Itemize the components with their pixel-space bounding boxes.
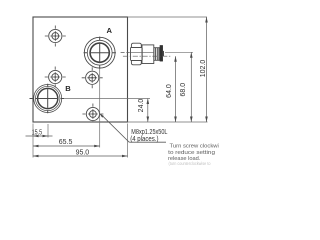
svg-text:to reduce setting: to reduce setting bbox=[168, 150, 215, 156]
right extension line bbox=[127, 124, 129, 158]
svg-text:Turn screw clockwi: Turn screw clockwi bbox=[170, 144, 219, 150]
extension line from B center y to 24.0 dim bbox=[64, 98, 150, 100]
bolt hole B1 bbox=[45, 26, 66, 47]
port B bbox=[30, 84, 65, 114]
dim 15.5 extension line at x=48 bbox=[47, 124, 49, 138]
dim 64.0 bbox=[175, 56, 177, 122]
svg-text:68.0: 68.0 bbox=[180, 83, 187, 97]
side view: dark end cap bbox=[160, 45, 163, 61]
dim 24.0 bbox=[147, 99, 149, 123]
svg-text:M8xp1.25x50L: M8xp1.25x50L bbox=[131, 129, 167, 136]
dim 15.5 bbox=[26, 135, 53, 137]
side view: threaded section bbox=[154, 48, 160, 61]
bolt hole B2 bbox=[45, 67, 66, 88]
screw centerline bbox=[123, 55, 171, 57]
plate outline (front view) bbox=[33, 17, 128, 122]
bottom extension line to vertical dims bbox=[128, 121, 208, 123]
svg-text:B: B bbox=[65, 84, 71, 93]
top extension line to 102.0 dim bbox=[128, 16, 208, 18]
bolt hole B3 bbox=[82, 67, 103, 88]
side view: hex locknut bbox=[131, 43, 143, 65]
svg-text:24.0: 24.0 bbox=[138, 99, 145, 113]
leader underline bbox=[129, 141, 166, 143]
port A bbox=[84, 37, 116, 69]
svg-text:65.5: 65.5 bbox=[59, 139, 73, 146]
svg-text:(4 places.): (4 places.) bbox=[130, 136, 158, 143]
dim 68.0 bbox=[190, 52, 192, 122]
side view: screw tip bbox=[163, 51, 164, 56]
svg-text:15.5: 15.5 bbox=[32, 129, 42, 136]
dim 68.0 extension line bbox=[165, 51, 193, 53]
extension line down from port A center (65.5 dim) bbox=[99, 69, 101, 148]
dim 65.5 bbox=[33, 145, 100, 147]
svg-text:102.0: 102.0 bbox=[200, 60, 207, 78]
dim 95.0 bbox=[33, 155, 128, 157]
svg-text:95.0: 95.0 bbox=[76, 150, 90, 157]
svg-text:64.0: 64.0 bbox=[166, 84, 173, 98]
side view: valve body bbox=[142, 45, 154, 64]
dim 102.0 bbox=[206, 17, 208, 122]
svg-text:(turn counterclockwise to: (turn counterclockwise to bbox=[169, 161, 211, 166]
screw shaft hidden line bbox=[121, 51, 130, 53]
bolt hole B4 bbox=[82, 104, 103, 122]
svg-text:A: A bbox=[107, 26, 113, 35]
left extension line bbox=[32, 124, 34, 158]
leader arrow to bolt hole B4 bbox=[99, 113, 104, 117]
